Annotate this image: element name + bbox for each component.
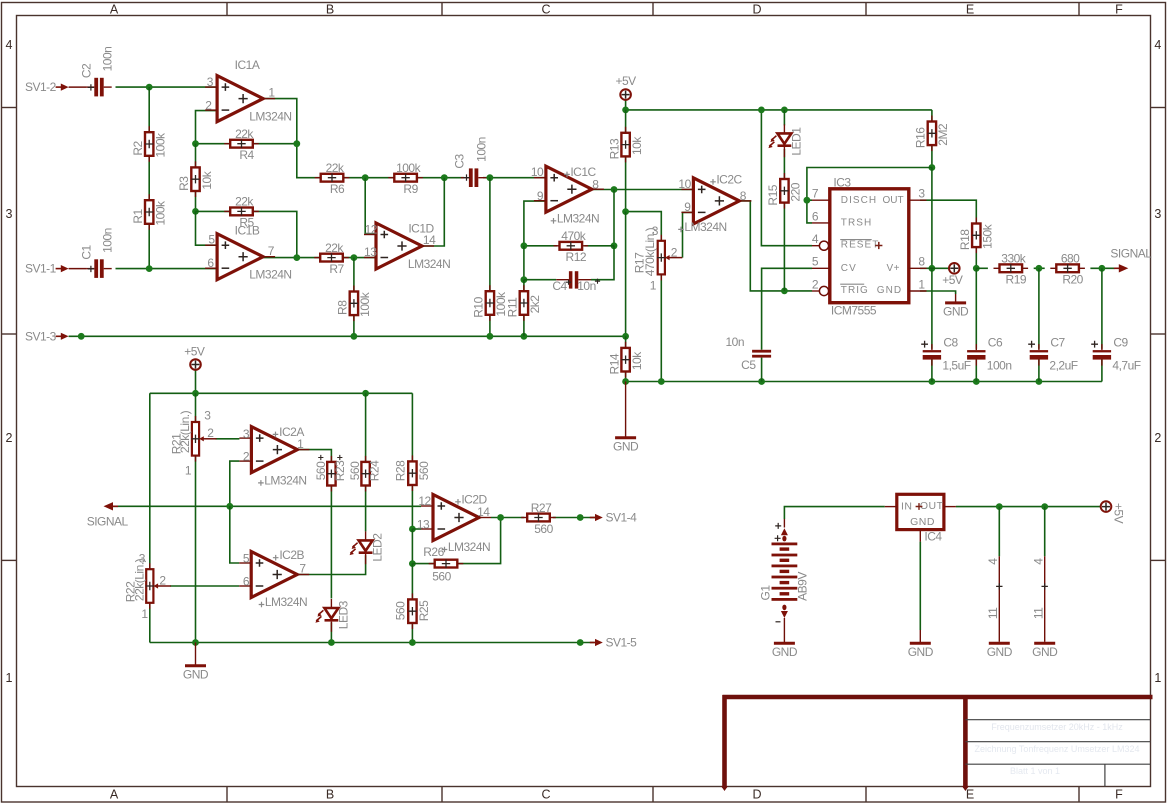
junction R28/IC2D pin13 node: [409, 526, 416, 533]
wire R21 bottom to ground rail: [195, 456, 197, 643]
svg-text:1: 1: [6, 671, 13, 685]
resistor R20 680: [1050, 264, 1085, 272]
svg-text:IC3: IC3: [833, 175, 851, 189]
svg-text:3: 3: [6, 207, 13, 221]
svg-text:LED3: LED3: [337, 600, 351, 629]
svg-text:DISCH: DISCH: [841, 195, 877, 206]
junction rail at RESET drop: [758, 107, 765, 114]
svg-text:TRIG: TRIG: [841, 285, 869, 296]
wire SV1-1 to C1: [69, 268, 87, 270]
svg-text:7: 7: [268, 244, 275, 258]
op-amp IC2B: [239, 552, 309, 598]
svg-text:1: 1: [185, 463, 192, 477]
svg-text:220: 220: [789, 182, 803, 201]
wire R7 right to IC1D pin13: [343, 257, 376, 259]
svg-text:C: C: [541, 788, 550, 802]
junction SIGNAL/IC2A/IC2B node: [226, 503, 233, 510]
svg-text:R19: R19: [1006, 273, 1027, 287]
svg-text:22k(Lin.): 22k(Lin.): [178, 410, 192, 453]
LED LED3: [315, 599, 338, 632]
junction R6/R9/IC1D pin12 node: [362, 174, 369, 181]
wire R12 left lead: [524, 245, 557, 247]
svg-text:10: 10: [678, 177, 691, 191]
wire R21 top lead: [195, 393, 197, 421]
svg-text:3: 3: [1154, 207, 1161, 221]
wire R14 top lead: [625, 336, 627, 349]
origin cross C4 value: [595, 279, 600, 284]
wire R22 bottom to ground rail: [149, 604, 151, 643]
frame row ticks left: [2, 107, 17, 109]
svg-text:GND: GND: [183, 667, 209, 681]
svg-text:D: D: [752, 788, 761, 802]
wire IC1B output to R7: [263, 257, 320, 259]
svg-text:2: 2: [205, 98, 212, 112]
polarity mark C8: [921, 341, 928, 348]
wire R2 column down: [148, 87, 150, 132]
wire IC2A pin2 to SIGNAL node: [230, 461, 240, 506]
svg-text:R11: R11: [506, 297, 520, 317]
svg-text:Blatt 1 von 1: Blatt 1 von 1: [1010, 766, 1060, 776]
svg-text:8: 8: [918, 255, 925, 269]
frame row ticks right: [1151, 107, 1166, 109]
svg-text:560: 560: [394, 601, 408, 620]
wire +5V to rail node: [625, 99, 627, 110]
origin cross power pins B: [1042, 583, 1048, 589]
svg-text:C6: C6: [988, 336, 1003, 350]
svg-text:SIGNAL: SIGNAL: [87, 515, 129, 529]
label IC2D name: [455, 499, 461, 505]
junction R14 on ground bus: [622, 378, 629, 385]
svg-text:B: B: [326, 788, 334, 802]
junction R20/C9 node: [1099, 265, 1106, 272]
title block small divider: [1104, 764, 1106, 786]
wire R1 to SV1-1 node: [148, 224, 150, 269]
svg-text:4: 4: [1031, 558, 1045, 565]
wire power pin B drop: [1044, 507, 1046, 557]
wire R5 node down to IC1B pin5: [196, 211, 218, 245]
label IC2A name: [273, 432, 279, 438]
svg-text:SV1-1: SV1-1: [25, 262, 57, 276]
svg-text:2: 2: [207, 426, 214, 440]
wire R10 bottom to bus: [489, 315, 491, 336]
wire node to IC2D pin13: [412, 528, 421, 530]
svg-text:GND: GND: [877, 285, 902, 296]
svg-text:GND: GND: [908, 645, 934, 659]
resistor R9 100k: [388, 174, 423, 182]
wire down to C4 left: [523, 246, 525, 280]
svg-text:R28: R28: [394, 460, 408, 481]
wire R15 bottom to TRIG node: [783, 203, 785, 291]
svg-text:R2: R2: [131, 141, 145, 156]
wire TRSH node down to V+ row: [931, 168, 933, 269]
junction C3 output node: [487, 174, 494, 181]
svg-text:LED1: LED1: [789, 127, 803, 156]
svg-text:GND: GND: [613, 439, 639, 453]
svg-text:4: 4: [1154, 38, 1161, 52]
ground symbol GND: [945, 294, 966, 303]
wire V+ pin to +5V symbol: [920, 267, 949, 269]
svg-text:2: 2: [1154, 431, 1161, 445]
wire node to R17 top: [626, 212, 662, 241]
svg-text:R26: R26: [423, 545, 444, 559]
svg-text:B: B: [326, 3, 334, 17]
svg-text:9: 9: [537, 189, 544, 203]
svg-text:2,2uF: 2,2uF: [1049, 358, 1077, 372]
resistor R18 150k: [972, 218, 980, 254]
wire C5 bottom to ground bus: [761, 358, 763, 382]
wire R5 right to IC1B output node: [253, 211, 297, 257]
junction R3 bottom / R5 left: [192, 208, 199, 215]
svg-text:+5V: +5V: [942, 273, 963, 287]
svg-text:C1: C1: [79, 245, 93, 260]
junction R21 top on rail: [192, 390, 199, 397]
svg-text:IC2D: IC2D: [461, 492, 487, 506]
svg-text:100k: 100k: [154, 132, 168, 158]
wire R3 bottom to R5 node: [195, 191, 197, 211]
svg-text:C2: C2: [79, 63, 93, 78]
LED LED2: [350, 531, 373, 564]
title block thick top line: [723, 695, 1153, 700]
svg-text:C5: C5: [741, 358, 756, 372]
wire IC1C output to IC2C pin10: [592, 189, 694, 191]
svg-text:C9: C9: [1113, 336, 1128, 350]
svg-text:C7: C7: [1050, 336, 1065, 350]
wire R11 top lead: [523, 280, 525, 291]
wire R14 bottom to ground bus: [625, 371, 627, 382]
capacitor C7 2,2uF: [1030, 344, 1048, 366]
wire R17 wiper to IC2C pin9: [683, 212, 694, 257]
wire R17 bottom to ground bus: [660, 274, 662, 381]
junction bus end at R14: [622, 333, 629, 340]
wire SIGNAL node down to IC2B pin5: [230, 506, 239, 563]
wire battery to IC4 IN: [784, 507, 884, 519]
frame column ticks bottom: [226, 787, 228, 802]
svg-text:R12: R12: [566, 250, 587, 264]
svg-text:560: 560: [432, 569, 451, 583]
resistor R13 10k: [621, 127, 629, 163]
svg-text:GND: GND: [910, 516, 935, 528]
wire C3 to IC1C pin10: [483, 177, 546, 179]
svg-text:9: 9: [684, 200, 691, 214]
svg-text:22k: 22k: [326, 161, 345, 175]
svg-text:SV1-5: SV1-5: [606, 636, 638, 650]
SIGNAL row wire: [111, 505, 421, 507]
svg-text:R9: R9: [403, 182, 418, 196]
svg-text:A: A: [110, 788, 119, 802]
svg-text:IC2A: IC2A: [279, 425, 304, 439]
wire R9 right to C3: [418, 177, 464, 179]
svg-text:R20: R20: [1062, 273, 1083, 287]
svg-text:SV1-2: SV1-2: [25, 80, 57, 94]
wire R26 left lead: [412, 563, 434, 565]
wire R5 left lead: [196, 210, 230, 212]
label IC1C value LM324N: [551, 218, 557, 224]
connector SV1-1: [56, 268, 63, 270]
wire R20 to SIGNAL arrow: [1090, 267, 1114, 269]
svg-text:TRSH: TRSH: [841, 217, 872, 228]
connector SV1-3: [56, 335, 63, 337]
svg-text:560: 560: [314, 461, 328, 480]
wire LED1 top lead: [783, 110, 785, 126]
origin cross power pins A: [996, 583, 1002, 589]
wire node down to R25: [411, 564, 413, 598]
wire IC1A output down to R6: [263, 99, 321, 178]
svg-text:R7: R7: [329, 262, 344, 276]
+5V rail wire: [626, 109, 932, 111]
svg-text:560: 560: [534, 522, 553, 536]
svg-text:680: 680: [1061, 252, 1080, 266]
svg-text:LED2: LED2: [371, 533, 385, 562]
junction R18/C6/R19 node: [973, 265, 980, 272]
svg-text:4: 4: [6, 38, 13, 52]
trimmer potentiometer R17 470k(Lin.): [657, 235, 682, 281]
wire C6 bottom lead: [975, 358, 977, 381]
svg-text:10n: 10n: [725, 335, 744, 349]
wire R8 bottom to bus: [353, 315, 355, 336]
junction C4 left node: [521, 276, 528, 283]
svg-text:IC4: IC4: [924, 529, 942, 543]
wire OUT to R18: [920, 200, 976, 223]
svg-text:4: 4: [812, 232, 819, 246]
svg-text:R23: R23: [333, 460, 347, 481]
wire SV1-2 to C2: [69, 86, 87, 88]
svg-text:2: 2: [6, 431, 13, 445]
svg-text:10k: 10k: [200, 170, 214, 189]
svg-text:IC2B: IC2B: [279, 548, 304, 562]
svg-text:R15: R15: [766, 184, 780, 205]
junction C7 on ground bus: [1036, 378, 1043, 385]
wire +5V to top rail: [195, 369, 197, 393]
resistor R11 2k2: [520, 285, 528, 321]
wire R3 top: [195, 144, 197, 167]
svg-text:Frequenzumsetzer 20kHz - 1kHz: Frequenzumsetzer 20kHz - 1kHz: [991, 722, 1123, 732]
junction rail at LED1 drop: [781, 107, 788, 114]
svg-text:C3: C3: [452, 154, 466, 169]
svg-text:22k: 22k: [235, 195, 254, 209]
svg-text:100k: 100k: [154, 200, 168, 226]
svg-text:1,5uF: 1,5uF: [942, 358, 970, 372]
svg-text:R16: R16: [914, 127, 928, 148]
svg-text:12: 12: [365, 222, 378, 236]
ground rail wire: [150, 642, 595, 644]
junction IC1B output node: [293, 254, 300, 261]
svg-text:100n: 100n: [101, 47, 115, 72]
svg-text:560: 560: [417, 461, 431, 480]
svg-text:R18: R18: [958, 229, 972, 250]
title block thick middle line: [963, 695, 968, 788]
svg-text:R24: R24: [368, 460, 382, 481]
wire rail corner down R22 column: [149, 393, 151, 569]
svg-text:R27: R27: [531, 501, 552, 515]
voltage regulator IC4 box: [885, 494, 956, 541]
wire LED2 to IC2B output: [297, 555, 365, 574]
junction C2/R2 node: [146, 84, 153, 91]
junction R24 top on rail: [362, 390, 369, 397]
wire TRSH node to DISCH/TRSH pins: [807, 168, 932, 223]
junction SV1-3 stub: [78, 333, 85, 340]
wire node down to bus: [625, 212, 627, 337]
junction R26 left node: [409, 560, 416, 567]
capacitor C1 100n: [86, 259, 111, 278]
signal arrow left: [112, 505, 119, 507]
junction IC1A feedback node: [293, 140, 300, 147]
op-amp IC2C: [681, 178, 751, 224]
svg-text:5: 5: [243, 552, 250, 566]
svg-text:6: 6: [812, 209, 819, 223]
junction C6 on ground bus: [973, 378, 980, 385]
svg-text:1: 1: [297, 437, 304, 451]
wire C9 bottom lead: [1101, 358, 1103, 381]
svg-text:6: 6: [243, 575, 250, 589]
svg-text:LM324N: LM324N: [448, 540, 490, 554]
svg-text:1: 1: [1154, 671, 1161, 685]
junction R9/C3/IC1D out node: [441, 174, 448, 181]
junction R7/R8 node: [351, 254, 358, 261]
svg-text:1: 1: [650, 279, 657, 293]
svg-text:ICM7555: ICM7555: [831, 303, 877, 317]
resistor R14 10k: [621, 342, 629, 378]
svg-text:100k: 100k: [396, 161, 422, 175]
svg-text:100n: 100n: [101, 228, 115, 253]
junction C1/R1 node: [146, 265, 153, 272]
svg-text:1: 1: [268, 86, 275, 100]
junction C8 on ground bus: [929, 378, 936, 385]
svg-text:IC1A: IC1A: [235, 58, 260, 72]
svg-text:+5V: +5V: [184, 345, 205, 359]
connector SV1-5: [590, 642, 597, 644]
svg-text:2: 2: [812, 277, 819, 291]
wire node down to R26: [411, 529, 413, 564]
svg-text:SIGNAL: SIGNAL: [1110, 247, 1152, 261]
wire R24 to LED2: [365, 486, 367, 531]
title block row lines: [965, 719, 1150, 721]
svg-text:5: 5: [812, 255, 819, 269]
junction C5 on ground bus: [758, 378, 765, 385]
wire output node down to R12 right: [613, 190, 615, 246]
svg-text:100k: 100k: [358, 291, 372, 317]
capacitor C6 100n: [967, 344, 985, 366]
bus wire SV1-3 reference rail: [69, 335, 626, 337]
junction R12 right node: [611, 242, 618, 249]
ground symbol GND: [615, 382, 636, 438]
svg-text:IN: IN: [901, 500, 913, 512]
resistor R2 100k: [145, 126, 153, 162]
svg-text:12: 12: [418, 494, 431, 508]
origin cross C2: [88, 84, 94, 90]
wire R18 bottom node: [975, 247, 977, 268]
svg-text:IC1B: IC1B: [235, 223, 260, 237]
svg-text:G1: G1: [759, 585, 773, 601]
junction R13/R17 node: [622, 208, 629, 215]
+5V supply symbol: [949, 263, 960, 274]
op-amp IC1A: [205, 76, 275, 122]
wire R13 bottom to node: [625, 156, 627, 211]
svg-text:Zeichnung Tonfrequenz Umsetzer: Zeichnung Tonfrequenz Umsetzer LM324: [975, 744, 1140, 754]
wire rail corner down to R28: [411, 393, 413, 460]
svg-text:IC2C: IC2C: [716, 172, 742, 186]
wire R13 top lead: [625, 110, 627, 133]
svg-text:OUT: OUT: [883, 195, 904, 206]
wire R16 top lead from rail: [931, 110, 933, 121]
polarity mark G1 +: [775, 523, 781, 529]
junction V+ node: [929, 265, 936, 272]
svg-text:11: 11: [986, 607, 1000, 619]
resistor R12 470k: [554, 242, 589, 250]
svg-text:4,7uF: 4,7uF: [1112, 358, 1140, 372]
svg-text:22k: 22k: [325, 241, 344, 255]
resistor R10 100k: [486, 285, 494, 321]
junction R15 bottom on TRIG wire: [781, 288, 788, 295]
resistor R23 560: [327, 456, 335, 492]
wire R16 bottom to TRSH node: [931, 146, 933, 168]
wire IC4 GND down: [919, 542, 921, 630]
svg-text:10n: 10n: [577, 279, 596, 293]
+5V supply symbol: [1101, 501, 1112, 512]
junction R16/TRSH node: [929, 164, 936, 171]
svg-text:13: 13: [417, 518, 430, 532]
svg-text:CV: CV: [841, 263, 857, 274]
wire R26 right to IC2D output: [457, 518, 500, 564]
op-amp IC1B: [205, 234, 275, 280]
junction R10 on bus: [487, 333, 494, 340]
resistor R8 100k: [350, 286, 358, 322]
wire R4 right lead: [253, 143, 297, 145]
resistor R25 560: [408, 593, 416, 629]
resistor R1 100k: [145, 194, 153, 230]
svg-text:1: 1: [141, 607, 148, 621]
svg-text:SV1-3: SV1-3: [25, 329, 57, 343]
svg-text:+5V: +5V: [1111, 503, 1125, 524]
label IC2D value LM324N: [442, 547, 448, 553]
wire R8 top lead: [353, 258, 355, 292]
origin cross IC3: [875, 242, 882, 249]
wire C6 top lead: [975, 268, 977, 349]
svg-text:GND: GND: [943, 304, 969, 318]
svg-text:3: 3: [652, 224, 659, 238]
svg-text:100n: 100n: [475, 137, 489, 162]
frame column ticks top: [226, 3, 228, 16]
resistor R15 220: [780, 173, 788, 209]
ground symbol GND: [1034, 642, 1055, 645]
IC3 pin names: [840, 195, 903, 296]
svg-text:22k: 22k: [235, 127, 254, 141]
capacitor C9 4,7uF: [1093, 344, 1111, 366]
wire DISCH pin to node: [807, 199, 812, 201]
wire LED3 to ground rail: [330, 622, 332, 642]
trimmer potentiometer R21 22k(Lin.): [191, 416, 216, 462]
wire R19 to R20: [1034, 267, 1045, 269]
capacitor C2 100n: [86, 78, 111, 97]
svg-text:C: C: [541, 3, 550, 17]
svg-text:R1: R1: [131, 209, 145, 224]
svg-text:560: 560: [348, 461, 362, 480]
svg-text:3: 3: [139, 551, 146, 565]
resistor R6 22k: [315, 174, 350, 182]
wire C9 top lead: [1101, 268, 1103, 349]
op-amp IC2A: [239, 427, 309, 473]
resistor R24 560: [361, 456, 369, 492]
svg-text:2: 2: [243, 450, 250, 464]
+5V supply symbol: [620, 89, 631, 100]
junction DISCH/TRSH tie: [804, 197, 811, 204]
resistor R19 330k: [994, 264, 1029, 272]
wire IC1A pin2 to R4 node: [196, 111, 218, 144]
origin cross C4 name: [566, 280, 571, 285]
svg-text:R13: R13: [607, 138, 621, 159]
junction R11 on bus: [521, 333, 528, 340]
connector SV1-4: [590, 517, 597, 519]
svg-text:A: A: [110, 3, 119, 17]
